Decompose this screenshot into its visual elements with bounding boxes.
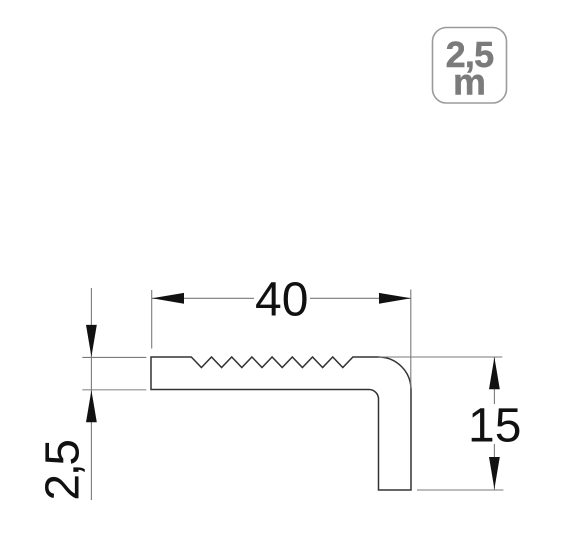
- dim 40: dimension line right segment: [310, 297, 411, 299]
- svg-text:2,5: 2,5: [37, 441, 90, 501]
- dim 15: bottom extension line: [417, 489, 503, 491]
- dim 15: lower arrow pointing down: [489, 457, 500, 489]
- dim 2,5: lower arrow pointing up: [86, 390, 97, 422]
- dim 40: dimension line left segment: [152, 297, 254, 299]
- dim 15: top extension line: [379, 356, 503, 358]
- dim 2,5: top extension line: [82, 356, 146, 358]
- dim 15: upper arrow pointing up: [489, 357, 500, 389]
- dim 40: right extension line: [410, 290, 412, 389]
- dim 15: dimension line upper segment: [493, 357, 495, 404]
- svg-text:m: m: [453, 62, 486, 103]
- dim 40: left arrow: [152, 293, 184, 304]
- dim 40: left extension line: [151, 290, 153, 349]
- dim 2,5: vertical dimension line: [90, 288, 92, 500]
- svg-text:15: 15: [468, 399, 521, 452]
- dim 40: right arrow: [379, 293, 411, 304]
- dim 2,5: upper arrow pointing down: [86, 325, 97, 357]
- dim 15: dimension line lower segment: [493, 444, 495, 490]
- badge 2,5 m box: [433, 28, 507, 104]
- dim 2,5: bottom extension line: [82, 389, 146, 391]
- svg-text:40: 40: [255, 274, 308, 327]
- profile outline (L-shaped stair nosing with serrated top): [151, 357, 411, 490]
